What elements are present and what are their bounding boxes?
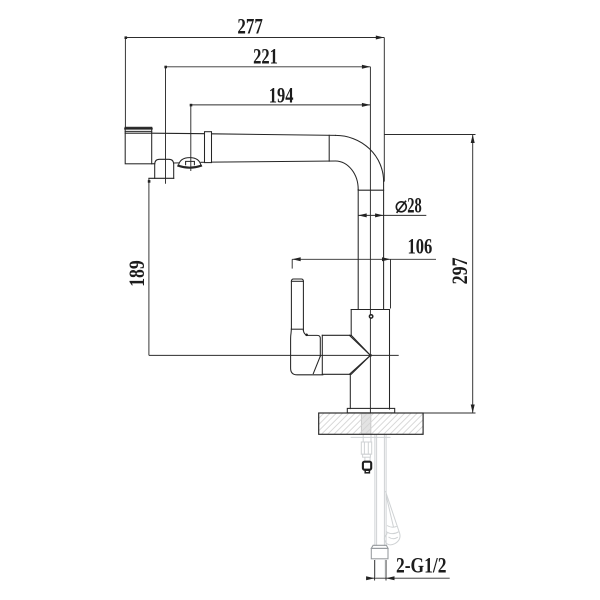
- svg-text:28: 28: [407, 192, 422, 217]
- svg-text:106: 106: [408, 233, 433, 258]
- svg-text:2-G1/2: 2-G1/2: [396, 553, 447, 578]
- svg-text:194: 194: [269, 82, 294, 107]
- svg-text:277: 277: [237, 13, 262, 38]
- svg-text:297: 297: [447, 257, 472, 284]
- svg-text:221: 221: [253, 44, 278, 69]
- svg-text:189: 189: [124, 260, 149, 287]
